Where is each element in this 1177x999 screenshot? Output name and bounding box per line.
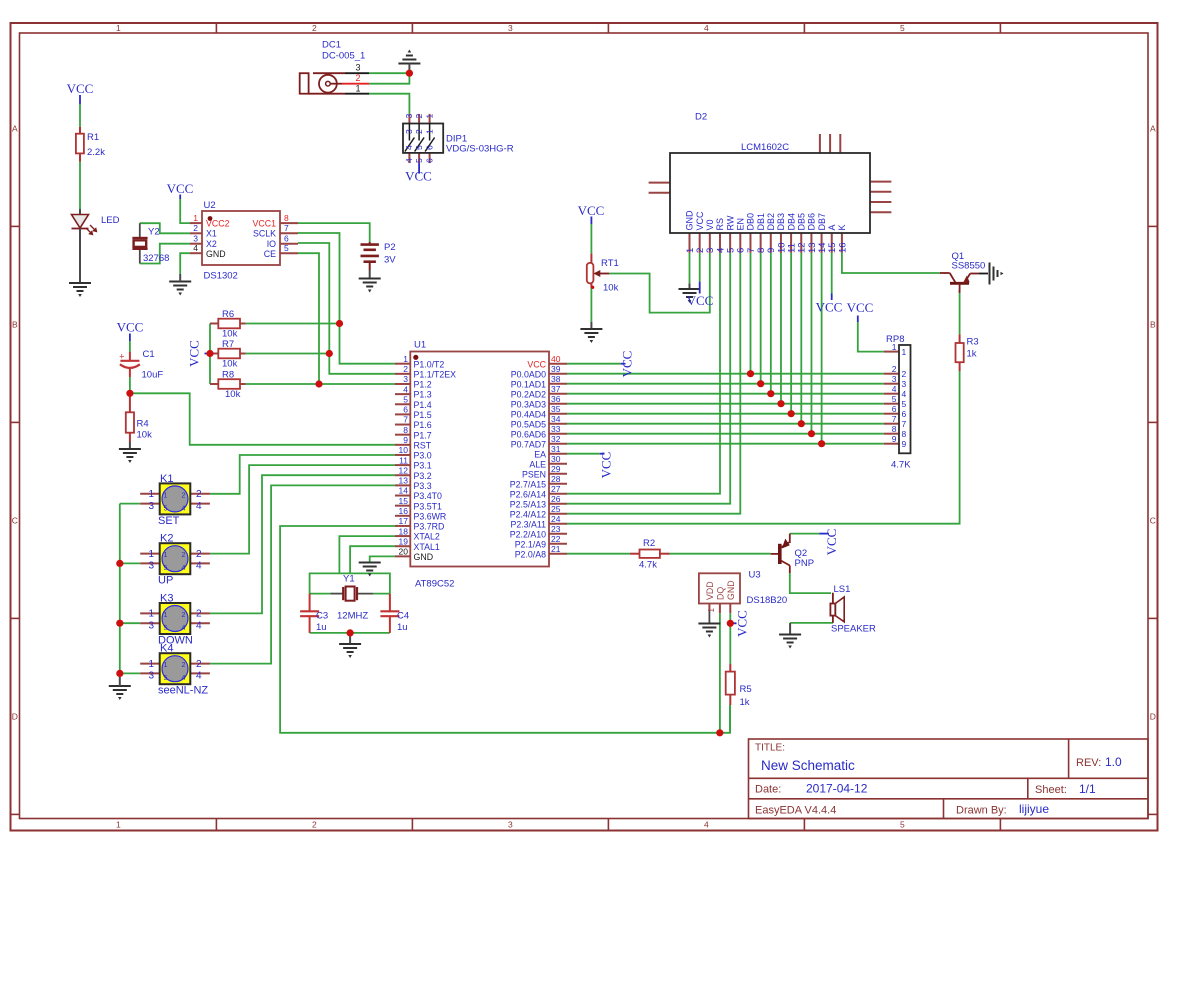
svg-text:P2.2/A10: P2.2/A10: [510, 529, 546, 539]
svg-text:2: 2: [196, 659, 202, 670]
svg-text:3: 3: [404, 114, 414, 119]
svg-text:21: 21: [551, 544, 561, 554]
svg-text:5: 5: [284, 243, 289, 253]
svg-text:Drawn By:: Drawn By:: [956, 805, 1007, 817]
svg-text:10k: 10k: [225, 389, 241, 400]
svg-text:24: 24: [551, 514, 561, 524]
svg-text:39: 39: [551, 364, 561, 374]
svg-text:4: 4: [182, 505, 186, 512]
svg-text:4: 4: [404, 158, 414, 163]
svg-text:5: 5: [414, 145, 424, 150]
svg-text:3: 3: [403, 374, 408, 384]
svg-text:4: 4: [196, 620, 202, 631]
svg-text:4: 4: [404, 145, 414, 150]
svg-text:10uF: 10uF: [142, 370, 164, 381]
svg-text:5: 5: [892, 394, 897, 404]
svg-text:VCC: VCC: [599, 452, 614, 479]
svg-text:P2.7/A15: P2.7/A15: [510, 479, 546, 489]
svg-text:RST: RST: [414, 440, 432, 450]
svg-text:VCC: VCC: [405, 169, 432, 184]
svg-text:RS: RS: [715, 218, 725, 231]
svg-text:2: 2: [196, 549, 202, 560]
svg-text:29: 29: [551, 464, 561, 474]
svg-text:13: 13: [399, 476, 409, 486]
svg-text:6: 6: [403, 405, 408, 415]
svg-text:2: 2: [196, 489, 202, 500]
svg-text:P3.0: P3.0: [414, 451, 432, 461]
svg-text:U2: U2: [204, 200, 216, 211]
svg-text:1: 1: [424, 114, 434, 119]
svg-text:1k: 1k: [740, 697, 750, 708]
svg-text:X1: X1: [206, 229, 217, 239]
svg-text:6: 6: [424, 158, 434, 163]
svg-text:1/1: 1/1: [1079, 782, 1096, 796]
svg-text:5: 5: [164, 565, 168, 572]
svg-text:1u: 1u: [316, 622, 327, 633]
svg-text:1: 1: [148, 609, 154, 620]
svg-text:P3.1: P3.1: [414, 461, 432, 471]
svg-text:1: 1: [164, 552, 168, 559]
svg-text:4: 4: [403, 384, 408, 394]
svg-text:2: 2: [196, 609, 202, 620]
svg-text:4: 4: [182, 565, 186, 572]
svg-text:R2: R2: [643, 538, 655, 549]
svg-text:B: B: [1150, 320, 1156, 330]
svg-text:26: 26: [551, 494, 561, 504]
svg-text:Y1: Y1: [343, 574, 355, 585]
svg-text:VCC: VCC: [578, 203, 605, 218]
svg-text:R4: R4: [137, 419, 149, 430]
svg-text:18: 18: [399, 526, 409, 536]
svg-text:LED: LED: [101, 215, 120, 226]
svg-text:1u: 1u: [397, 622, 408, 633]
svg-text:3: 3: [508, 820, 513, 830]
svg-text:B: B: [12, 320, 18, 330]
svg-text:EasyEDA V4.4.4: EasyEDA V4.4.4: [755, 805, 836, 817]
svg-text:VCC: VCC: [824, 529, 839, 556]
svg-text:2: 2: [312, 820, 317, 830]
svg-text:P3.5T1: P3.5T1: [414, 501, 442, 511]
svg-text:Y2: Y2: [148, 227, 160, 238]
svg-text:P1.1/T2EX: P1.1/T2EX: [414, 369, 457, 379]
svg-text:11: 11: [399, 455, 408, 465]
svg-text:1k: 1k: [967, 349, 977, 360]
svg-text:R1: R1: [87, 132, 99, 143]
svg-text:P1.7: P1.7: [414, 430, 432, 440]
svg-text:37: 37: [551, 384, 561, 394]
svg-text:1: 1: [164, 662, 168, 669]
svg-text:3: 3: [508, 23, 513, 33]
svg-text:17: 17: [399, 516, 409, 526]
svg-text:GND: GND: [726, 580, 736, 600]
svg-text:2: 2: [193, 223, 198, 233]
svg-text:P2: P2: [384, 242, 396, 253]
svg-text:VCC2: VCC2: [206, 219, 230, 229]
svg-text:V0: V0: [705, 219, 715, 230]
svg-text:2: 2: [182, 662, 186, 669]
svg-text:C: C: [1150, 516, 1156, 526]
svg-text:DQ: DQ: [715, 587, 725, 600]
svg-text:1: 1: [164, 492, 168, 499]
svg-text:P0.7AD7: P0.7AD7: [511, 439, 546, 449]
svg-text:P0.1AD1: P0.1AD1: [511, 379, 546, 389]
svg-text:K4: K4: [160, 643, 173, 655]
svg-text:1: 1: [902, 347, 907, 357]
svg-text:1: 1: [892, 342, 897, 352]
svg-text:VCC: VCC: [687, 293, 714, 308]
svg-text:32768: 32768: [143, 253, 169, 264]
svg-text:P0.0AD0: P0.0AD0: [511, 369, 546, 379]
svg-text:DB3: DB3: [776, 213, 786, 231]
svg-text:DB6: DB6: [807, 213, 817, 231]
svg-text:7: 7: [284, 223, 289, 233]
svg-text:10: 10: [399, 445, 409, 455]
svg-text:1: 1: [424, 129, 434, 134]
svg-text:4.7k: 4.7k: [639, 560, 657, 571]
svg-text:33: 33: [551, 424, 561, 434]
svg-text:P3.7RD: P3.7RD: [414, 522, 445, 532]
svg-text:C3: C3: [316, 611, 328, 622]
svg-text:5: 5: [403, 394, 408, 404]
svg-text:EN: EN: [736, 218, 746, 231]
svg-text:12MHZ: 12MHZ: [337, 611, 368, 622]
svg-text:4: 4: [704, 820, 709, 830]
svg-text:A: A: [12, 124, 18, 134]
svg-text:2.2k: 2.2k: [87, 147, 105, 158]
svg-text:XTAL1: XTAL1: [414, 542, 440, 552]
svg-text:8: 8: [284, 213, 289, 223]
svg-text:LS1: LS1: [834, 584, 851, 595]
svg-text:P0.5AD5: P0.5AD5: [511, 419, 546, 429]
svg-text:P3.3: P3.3: [414, 481, 432, 491]
svg-text:C1: C1: [143, 349, 155, 360]
svg-text:P2.4/A12: P2.4/A12: [510, 509, 546, 519]
svg-text:VDD: VDD: [705, 581, 715, 600]
svg-text:VCC: VCC: [527, 359, 546, 369]
svg-text:9: 9: [892, 434, 897, 444]
svg-text:1: 1: [707, 608, 716, 613]
svg-text:P0.2AD2: P0.2AD2: [511, 389, 546, 399]
svg-text:5: 5: [164, 625, 168, 632]
svg-text:lijiyue: lijiyue: [1019, 802, 1049, 816]
svg-text:19: 19: [399, 536, 409, 546]
svg-text:C: C: [12, 516, 18, 526]
svg-text:3: 3: [355, 63, 360, 73]
svg-text:P2.5/A13: P2.5/A13: [510, 499, 546, 509]
svg-text:10k: 10k: [222, 359, 238, 370]
svg-text:EA: EA: [534, 449, 546, 459]
svg-text:3: 3: [892, 374, 897, 384]
svg-text:2: 2: [414, 114, 424, 119]
svg-text:4: 4: [193, 243, 198, 253]
svg-text:Sheet:: Sheet:: [1035, 784, 1067, 796]
svg-text:P3.6WR: P3.6WR: [414, 511, 447, 521]
svg-text:K: K: [837, 224, 847, 230]
svg-text:R7: R7: [222, 339, 234, 350]
svg-text:P3.2: P3.2: [414, 471, 432, 481]
svg-text:A: A: [827, 224, 837, 230]
svg-text:SS8550: SS8550: [952, 261, 986, 272]
svg-text:34: 34: [551, 414, 561, 424]
svg-text:DB0: DB0: [746, 213, 756, 231]
svg-text:VCC: VCC: [695, 211, 705, 231]
svg-text:27: 27: [551, 484, 561, 494]
svg-text:P1.6: P1.6: [414, 420, 432, 430]
svg-text:Date:: Date:: [755, 784, 781, 796]
svg-text:DC-005_1: DC-005_1: [322, 51, 365, 62]
svg-text:VDG/S-03HG-R: VDG/S-03HG-R: [446, 144, 514, 155]
svg-text:PSEN: PSEN: [522, 469, 546, 479]
svg-text:7: 7: [902, 419, 907, 429]
svg-text:4: 4: [182, 625, 186, 632]
svg-text:6: 6: [902, 409, 907, 419]
svg-text:9: 9: [403, 435, 408, 445]
svg-text:GND: GND: [206, 249, 226, 259]
svg-text:4: 4: [196, 501, 202, 512]
svg-text:P2.0/A8: P2.0/A8: [515, 549, 546, 559]
svg-text:REV:: REV:: [1076, 757, 1101, 769]
svg-text:U3: U3: [749, 570, 761, 581]
svg-text:12: 12: [399, 465, 409, 475]
svg-text:P1.2: P1.2: [414, 380, 432, 390]
svg-text:3: 3: [902, 379, 907, 389]
svg-text:VCC1: VCC1: [253, 219, 277, 229]
svg-text:VCC: VCC: [167, 181, 194, 196]
svg-text:1: 1: [116, 23, 121, 33]
svg-text:2: 2: [403, 364, 408, 374]
svg-text:RT1: RT1: [601, 258, 619, 269]
svg-text:28: 28: [551, 474, 561, 484]
svg-text:P1.3: P1.3: [414, 390, 432, 400]
svg-text:8: 8: [902, 429, 907, 439]
svg-text:1: 1: [148, 659, 154, 670]
svg-text:P0.3AD3: P0.3AD3: [511, 399, 546, 409]
svg-text:3: 3: [193, 233, 198, 243]
svg-text:X2: X2: [206, 239, 217, 249]
svg-text:4: 4: [182, 675, 186, 682]
svg-text:4: 4: [196, 671, 202, 682]
svg-text:P1.4: P1.4: [414, 400, 432, 410]
svg-text:R3: R3: [967, 337, 979, 348]
svg-text:40: 40: [551, 354, 561, 364]
svg-text:DB1: DB1: [756, 213, 766, 231]
svg-text:DB7: DB7: [817, 213, 827, 231]
svg-text:4: 4: [892, 384, 897, 394]
svg-text:R5: R5: [740, 684, 752, 695]
svg-text:2: 2: [414, 129, 424, 134]
svg-text:6: 6: [284, 233, 289, 243]
svg-text:D: D: [12, 712, 18, 722]
svg-text:3: 3: [148, 620, 154, 631]
svg-text:New Schematic: New Schematic: [761, 758, 855, 773]
svg-text:38: 38: [551, 374, 561, 384]
svg-text:P2.3/A11: P2.3/A11: [510, 519, 546, 529]
svg-text:+: +: [119, 351, 124, 361]
svg-text:K1: K1: [160, 473, 173, 485]
svg-text:2: 2: [902, 369, 907, 379]
svg-text:25: 25: [551, 504, 561, 514]
svg-text:30: 30: [551, 454, 561, 464]
svg-text:R6: R6: [222, 309, 234, 320]
svg-text:VCC: VCC: [67, 81, 94, 96]
svg-text:22: 22: [551, 534, 561, 544]
svg-text:1: 1: [116, 820, 121, 830]
svg-text:LCM1602C: LCM1602C: [741, 142, 789, 153]
svg-text:2: 2: [312, 23, 317, 33]
svg-text:3: 3: [404, 129, 414, 134]
svg-text:5: 5: [900, 23, 905, 33]
svg-text:DC1: DC1: [322, 40, 341, 51]
svg-text:PNP: PNP: [795, 558, 815, 569]
svg-text:D2: D2: [695, 112, 707, 123]
svg-text:P2.6/A14: P2.6/A14: [510, 489, 546, 499]
svg-text:7: 7: [403, 415, 408, 425]
svg-text:CE: CE: [264, 249, 276, 259]
svg-text:DS18B20: DS18B20: [747, 595, 788, 606]
svg-text:K3: K3: [160, 593, 173, 605]
svg-text:2: 2: [182, 552, 186, 559]
svg-text:5: 5: [902, 399, 907, 409]
svg-text:3: 3: [148, 671, 154, 682]
svg-text:VCC: VCC: [117, 320, 144, 335]
svg-text:1: 1: [355, 84, 360, 94]
svg-text:5: 5: [164, 675, 168, 682]
svg-text:RW: RW: [725, 215, 735, 230]
svg-text:VCC: VCC: [187, 340, 202, 367]
svg-text:4: 4: [704, 23, 709, 33]
svg-text:8: 8: [403, 425, 408, 435]
svg-text:AT89C52: AT89C52: [415, 579, 454, 590]
svg-text:DB4: DB4: [786, 213, 796, 231]
svg-text:ALE: ALE: [529, 459, 546, 469]
svg-text:20: 20: [399, 547, 409, 557]
svg-text:UP: UP: [158, 575, 173, 587]
svg-text:5: 5: [164, 505, 168, 512]
svg-text:SCLK: SCLK: [253, 229, 276, 239]
svg-text:SET: SET: [158, 515, 180, 527]
svg-text:VCC: VCC: [816, 300, 843, 315]
svg-text:4: 4: [902, 389, 907, 399]
svg-text:DB5: DB5: [796, 213, 806, 231]
svg-text:2: 2: [182, 612, 186, 619]
svg-text:5: 5: [900, 820, 905, 830]
svg-text:P1.0/T2: P1.0/T2: [414, 359, 445, 369]
svg-text:35: 35: [551, 404, 561, 414]
svg-text:4.7K: 4.7K: [891, 460, 911, 471]
svg-text:GND: GND: [685, 210, 695, 231]
svg-text:P1.5: P1.5: [414, 410, 432, 420]
svg-text:VCC: VCC: [620, 351, 635, 378]
svg-text:VCC: VCC: [847, 300, 874, 315]
svg-text:1: 1: [148, 489, 154, 500]
svg-text:1: 1: [148, 549, 154, 560]
svg-text:1: 1: [193, 213, 198, 223]
svg-text:R8: R8: [222, 369, 234, 380]
svg-text:P3.4T0: P3.4T0: [414, 491, 442, 501]
svg-text:C4: C4: [397, 611, 409, 622]
svg-text:10k: 10k: [603, 283, 619, 294]
svg-text:SPEAKER: SPEAKER: [831, 624, 876, 635]
svg-text:K2: K2: [160, 533, 173, 545]
svg-text:10k: 10k: [137, 430, 153, 441]
svg-text:seeNL-NZ: seeNL-NZ: [158, 685, 208, 697]
svg-text:14: 14: [399, 486, 409, 496]
svg-text:U1: U1: [414, 340, 426, 351]
svg-text:2: 2: [355, 73, 360, 83]
svg-text:32: 32: [551, 434, 561, 444]
svg-text:3V: 3V: [384, 255, 396, 266]
svg-text:16: 16: [399, 506, 409, 516]
svg-text:9: 9: [902, 439, 907, 449]
svg-text:DS1302: DS1302: [204, 271, 238, 282]
svg-text:6: 6: [892, 404, 897, 414]
svg-text:2: 2: [892, 364, 897, 374]
svg-text:DB2: DB2: [766, 213, 776, 231]
svg-text:2017-04-12: 2017-04-12: [806, 782, 868, 796]
svg-text:P0.6AD6: P0.6AD6: [511, 429, 546, 439]
svg-text:XTAL2: XTAL2: [414, 532, 440, 542]
svg-text:1: 1: [164, 612, 168, 619]
svg-text:16: 16: [837, 242, 848, 253]
svg-text:4: 4: [196, 561, 202, 572]
svg-text:3: 3: [148, 501, 154, 512]
svg-text:VCC: VCC: [735, 610, 750, 637]
svg-text:8: 8: [892, 424, 897, 434]
svg-text:1: 1: [403, 354, 408, 364]
svg-text:TITLE:: TITLE:: [755, 743, 785, 754]
svg-text:3: 3: [148, 561, 154, 572]
svg-text:36: 36: [551, 394, 561, 404]
svg-text:A: A: [1150, 124, 1156, 134]
svg-text:P0.4AD4: P0.4AD4: [511, 409, 546, 419]
svg-text:IO: IO: [267, 239, 276, 249]
svg-text:15: 15: [399, 496, 409, 506]
svg-text:P2.1/A9: P2.1/A9: [515, 539, 546, 549]
svg-text:D: D: [1150, 712, 1156, 722]
svg-text:31: 31: [551, 444, 561, 454]
svg-text:6: 6: [424, 145, 434, 150]
svg-text:2: 2: [182, 492, 186, 499]
svg-text:7: 7: [892, 414, 897, 424]
svg-text:23: 23: [551, 524, 561, 534]
svg-text:1.0: 1.0: [1105, 755, 1122, 769]
svg-text:5: 5: [414, 158, 424, 163]
svg-text:GND: GND: [414, 552, 434, 562]
